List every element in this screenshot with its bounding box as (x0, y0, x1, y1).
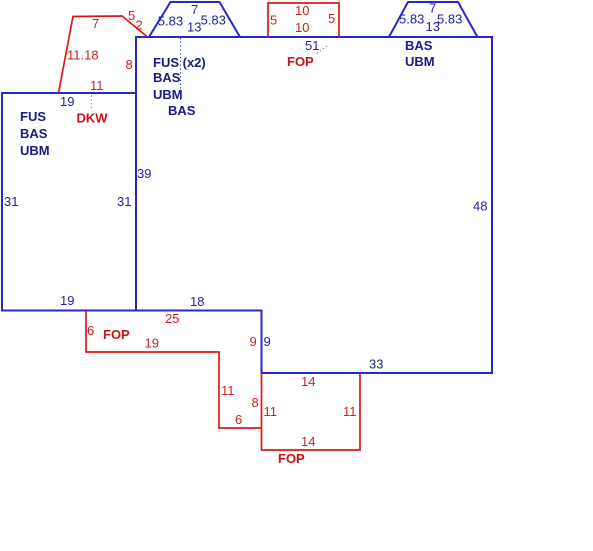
svg-text:5: 5 (270, 13, 277, 28)
svg-text:7: 7 (92, 16, 99, 31)
svg-text:33: 33 (369, 356, 383, 371)
svg-text:2: 2 (136, 18, 143, 33)
svg-text:FOP: FOP (287, 54, 314, 69)
svg-text:11: 11 (343, 404, 357, 419)
svg-text:BAS: BAS (168, 103, 196, 118)
svg-text:9: 9 (264, 334, 271, 349)
leader line from DKW area to DKW label (90, 96, 92, 111)
lower-left porch FOP outline (86, 311, 262, 428)
main building outline (FUS x2 / BAS / UBM) (136, 37, 492, 373)
svg-text:18: 18 (190, 294, 204, 309)
svg-text:19: 19 (145, 336, 159, 351)
svg-text:UBM: UBM (20, 143, 50, 158)
svg-text:14: 14 (301, 374, 315, 389)
svg-text:11: 11 (90, 78, 104, 93)
svg-text:51: 51 (305, 38, 319, 53)
leader dots from top FOP to its label (316, 46, 327, 54)
left wing rectangle (FUS/BAS/UBM) (2, 93, 136, 311)
svg-text:BAS: BAS (20, 126, 48, 141)
svg-text:31: 31 (4, 194, 18, 209)
svg-text:19: 19 (60, 293, 74, 308)
svg-text:9: 9 (250, 334, 257, 349)
right bay trapezoid (BAS/UBM) (389, 2, 478, 37)
svg-text:10: 10 (295, 3, 309, 18)
svg-text:5.83: 5.83 (399, 12, 424, 27)
svg-text:6: 6 (87, 323, 94, 338)
svg-text:5.83: 5.83 (201, 13, 226, 28)
left bay trapezoid (BAS) (149, 2, 240, 37)
svg-text:13: 13 (187, 20, 201, 35)
svg-text:25: 25 (165, 311, 179, 326)
svg-text:FUS: FUS (20, 109, 46, 124)
svg-text:11.18: 11.18 (67, 48, 99, 63)
svg-text:FOP: FOP (278, 451, 305, 466)
bottom porch FOP rectangle (262, 373, 361, 450)
svg-text:8: 8 (126, 57, 133, 72)
svg-text:DKW: DKW (77, 110, 109, 125)
svg-text:5: 5 (128, 8, 135, 23)
svg-text:5: 5 (328, 11, 335, 26)
svg-text:UBM: UBM (153, 87, 183, 102)
svg-text:10: 10 (295, 20, 309, 35)
svg-text:11: 11 (221, 383, 235, 398)
svg-text:BAS: BAS (153, 70, 181, 85)
svg-text:5.83: 5.83 (158, 13, 183, 28)
svg-text:FOP: FOP (103, 327, 130, 342)
svg-text:48: 48 (473, 198, 487, 213)
svg-text:8: 8 (252, 395, 259, 410)
deck DKW outline (59, 16, 148, 93)
leader line from left trapezoid to BAS label (180, 38, 182, 103)
svg-text:14: 14 (301, 434, 315, 449)
svg-text:7: 7 (191, 2, 198, 17)
svg-text:7: 7 (429, 1, 436, 16)
svg-text:31: 31 (117, 194, 131, 209)
svg-text:6: 6 (235, 412, 242, 427)
top porch FOP rectangle (268, 3, 339, 37)
svg-text:19: 19 (60, 94, 74, 109)
svg-text:11: 11 (264, 404, 278, 419)
svg-text:39: 39 (137, 166, 151, 181)
svg-text:UBM: UBM (405, 54, 435, 69)
svg-text:5.83: 5.83 (437, 12, 462, 27)
svg-text:BAS: BAS (405, 38, 433, 53)
svg-text:FUS (x2): FUS (x2) (153, 55, 206, 70)
